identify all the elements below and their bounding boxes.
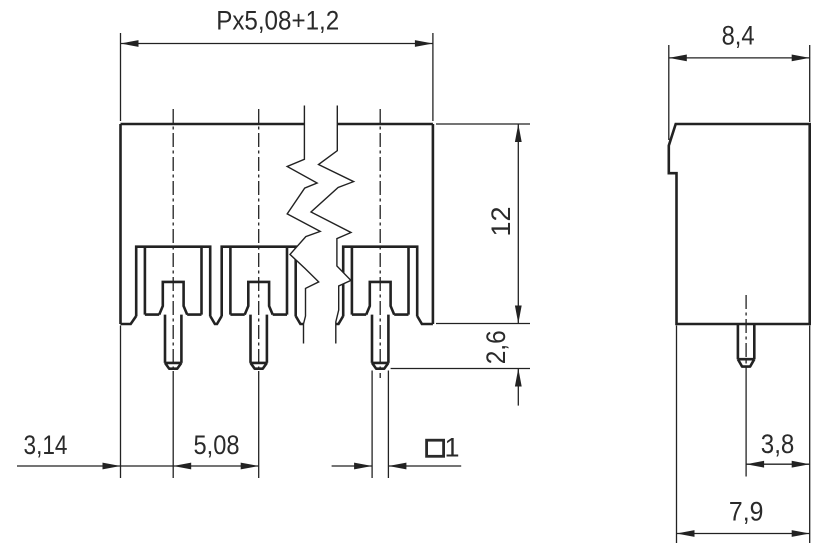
front body bottom profile with valleys xyxy=(121,316,433,324)
white break-out region between zigzag rupture lines xyxy=(287,122,353,344)
dimension lines for square pin 1mm xyxy=(332,465,373,467)
dimension 3,8 / 7,9 right extension line xyxy=(809,326,811,544)
svg-text:3,14: 3,14 xyxy=(24,430,68,460)
pin 1 contact head and flare xyxy=(159,282,187,315)
square symbol of dimension 1 xyxy=(427,440,444,456)
dimension line 3,14 and 5,08 xyxy=(17,465,259,467)
contact shroud module 2 xyxy=(222,247,296,317)
front body left edge xyxy=(119,124,122,324)
side view solder pin xyxy=(738,324,754,367)
svg-text:Px5,08+1,2: Px5,08+1,2 xyxy=(216,5,339,35)
dimension line Px5,08+1,2 xyxy=(121,43,433,45)
contact shroud module 1 xyxy=(136,247,210,317)
dimension 8,4 extension lines xyxy=(668,45,670,140)
solder pin 3 xyxy=(372,315,388,369)
front view: header body outline xyxy=(121,123,433,126)
solder pin 2 xyxy=(251,315,267,369)
pin 2 contact head and flare xyxy=(245,282,273,315)
pin 1 centerline xyxy=(172,109,174,371)
dimension line 2,6 xyxy=(517,369,519,406)
svg-text:8,4: 8,4 xyxy=(722,20,755,50)
dimension line 12 xyxy=(517,124,519,324)
svg-text:2,6: 2,6 xyxy=(481,330,511,364)
svg-text:12: 12 xyxy=(486,207,516,237)
dimension 2,6 extension line at pin tip xyxy=(391,368,530,370)
svg-text:3,8: 3,8 xyxy=(761,429,795,459)
dimension 12 extension lines xyxy=(436,123,530,125)
side pin centerline xyxy=(745,295,747,370)
pin 3 contact head and flare xyxy=(366,282,394,315)
dimension line 7,9 xyxy=(677,533,810,535)
dimension 7,9 left extension line xyxy=(676,326,678,544)
svg-text:7,9: 7,9 xyxy=(729,497,764,527)
pin 3 centerline xyxy=(379,109,381,378)
dimension line 8,4 xyxy=(669,57,810,59)
solder pin 1 xyxy=(165,315,181,369)
svg-text:1: 1 xyxy=(445,433,460,463)
right zigzag rupture line xyxy=(311,106,354,344)
dimension 3,14 / 5,08 extension line from body left edge xyxy=(120,326,122,479)
svg-text:5,08: 5,08 xyxy=(194,430,240,460)
front body right edge xyxy=(432,124,435,324)
pin 2 centerline xyxy=(258,109,260,371)
side view body outline xyxy=(669,124,810,324)
contact shroud module 3 xyxy=(343,247,417,317)
dimension square-1 extension lines at pin 3 edges xyxy=(371,371,373,479)
dimension line 3,8 xyxy=(746,463,810,465)
dimension Px5,08+1,2 extension lines xyxy=(120,33,122,121)
left zigzag rupture line xyxy=(287,106,320,344)
